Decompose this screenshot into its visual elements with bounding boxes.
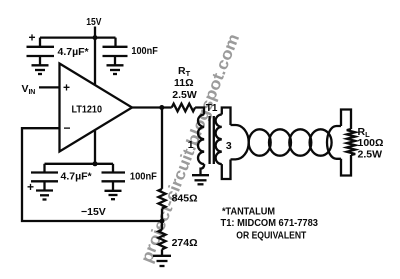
transformer T1 core	[208, 116, 210, 164]
ground C2	[107, 64, 124, 66]
wire 845 to node	[161, 208, 163, 229]
wire cap C4 stub	[112, 164, 114, 172]
svg-text:2.5W: 2.5W	[358, 149, 383, 161]
svg-text:11Ω: 11Ω	[174, 77, 194, 89]
svg-text:+: +	[29, 31, 36, 45]
svg-text:*TANTALUM: *TANTALUM	[222, 206, 275, 218]
cable eye 1	[249, 129, 271, 155]
cable eye 4	[310, 129, 332, 155]
ground C1	[32, 64, 49, 66]
node output junction	[159, 105, 164, 110]
svg-text:T1: T1	[206, 103, 218, 114]
transformer T1 secondary winding	[216, 115, 222, 165]
svg-text:3: 3	[226, 140, 232, 152]
capacitor C1 4.7uF plates	[27, 46, 55, 48]
wire V+ supply	[94, 38, 96, 85]
svg-text:LT1210: LT1210	[72, 104, 103, 116]
wire VIN input	[39, 86, 60, 88]
wire V- supply	[94, 131, 96, 164]
ground R2	[153, 255, 171, 257]
svg-text:100nF: 100nF	[130, 171, 158, 183]
wire cap C2 stub	[114, 38, 116, 47]
resistor RL zigzag	[347, 129, 355, 155]
transformer T1 primary winding	[198, 115, 204, 165]
svg-text:−: −	[64, 121, 71, 135]
wire T1 primary to ground	[201, 164, 205, 175]
svg-text:+: +	[27, 180, 34, 194]
cable eye 2	[269, 129, 291, 155]
resistor R1 845 zigzag	[158, 189, 165, 209]
svg-text:15V: 15V	[86, 16, 101, 28]
capacitor C3 4.7uF plates	[31, 171, 58, 173]
svg-text:+: +	[63, 81, 70, 95]
svg-text:4.7µF*: 4.7µF*	[58, 46, 90, 58]
ground C3	[36, 189, 53, 191]
wire bottom rail	[45, 163, 114, 165]
svg-text:OR EQUIVALENT: OR EQUIVALENT	[236, 230, 306, 242]
cable eye 3	[289, 129, 311, 155]
wire top rail	[40, 36, 116, 38]
svg-text:100nF: 100nF	[131, 45, 158, 57]
load bracket RL	[341, 110, 351, 176]
transformer T1 secondary terminal bar	[222, 108, 231, 180]
node -15V junction	[93, 161, 98, 166]
svg-text:−15V: −15V	[81, 206, 106, 218]
wire 845 branch	[161, 108, 163, 189]
resistor R2 274 zigzag	[158, 230, 165, 250]
node 15V junction	[93, 35, 98, 40]
node feedback junction	[160, 219, 165, 224]
cable left C loop	[231, 125, 249, 159]
capacitor C2 100nF plates	[103, 46, 128, 48]
wire RT to T1	[195, 108, 204, 115]
capacitor C4 100nF plates	[102, 171, 126, 173]
svg-text:1: 1	[188, 139, 194, 151]
resistor RT zigzag	[172, 104, 195, 112]
svg-text:100Ω: 100Ω	[358, 137, 384, 149]
wire output	[132, 106, 172, 108]
wire cap C1 stub	[39, 38, 41, 47]
svg-text:VIN: VIN	[22, 83, 36, 96]
cable right C loop	[327, 126, 341, 159]
ground C4	[105, 190, 122, 192]
svg-text:4.7µF*: 4.7µF*	[61, 171, 93, 183]
wire 274 to ground	[161, 249, 163, 256]
svg-text:2.5W: 2.5W	[172, 89, 197, 101]
ground T1	[192, 174, 209, 176]
op-amp U1 triangle	[60, 64, 133, 152]
svg-text:274Ω: 274Ω	[172, 237, 198, 249]
svg-text:845Ω: 845Ω	[172, 193, 198, 205]
svg-text:T1: MIDCOM 671-7783: T1: MIDCOM 671-7783	[221, 217, 319, 229]
wire 15V stub	[94, 27, 96, 38]
wire cap C3 stub	[43, 164, 45, 172]
wire feedback to inverting input	[22, 128, 162, 221]
